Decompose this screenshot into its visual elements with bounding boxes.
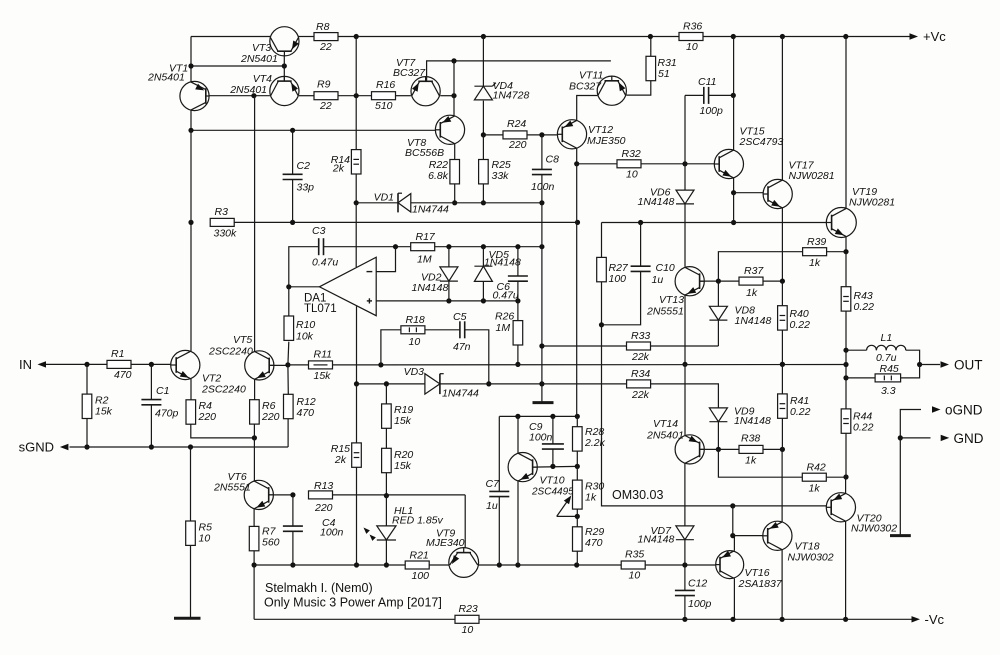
svg-text:2k: 2k [334, 454, 347, 466]
junction R37/VT17e/R40 [780, 279, 785, 284]
svg-text:R21: R21 [410, 550, 429, 562]
wire sGND rail [70, 446, 289, 448]
svg-text:470: 470 [114, 369, 132, 381]
junction long rail end x577 [575, 220, 580, 225]
wire DA1 V- supply [356, 306, 358, 384]
resistor R18 [401, 326, 425, 334]
wire R22 to VD1 wire [454, 184, 456, 203]
junction C8/VD1 wire [539, 200, 544, 205]
svg-text:10k: 10k [296, 331, 314, 343]
junction L1-R45 right/OUT [917, 362, 922, 367]
wire R43 top [845, 252, 847, 287]
svg-text:1M: 1M [417, 254, 432, 266]
junction VT3 base y66 [282, 63, 287, 68]
transistor VT18 [763, 521, 792, 550]
wire VT3 base down [283, 56, 285, 66]
transistor VT13 [675, 267, 704, 296]
svg-text:22k: 22k [631, 389, 650, 401]
svg-text:100n: 100n [531, 181, 555, 193]
wire x846 between dots [845, 350, 847, 378]
wire C9 top leg [552, 416, 554, 444]
wire R9 to R16 [338, 95, 372, 97]
resistor R5 [186, 521, 196, 545]
wire R37 left [718, 280, 739, 282]
wire C2 bottom [292, 180, 294, 223]
wire VT9 right onward [478, 564, 621, 566]
wire C1 top [150, 364, 152, 399]
wire VT14 collector up [684, 364, 686, 435]
wire -Vc rail left [254, 618, 455, 620]
wire OM-block vertical [602, 325, 733, 506]
svg-text:VT5: VT5 [233, 334, 252, 346]
svg-text:0.47u: 0.47u [312, 257, 338, 269]
transistor VT16 [716, 551, 744, 579]
svg-text:sGND: sGND [19, 440, 54, 455]
wire VT14 emitter down [684, 463, 686, 526]
wire DA1 output [289, 286, 320, 288]
junction VT10c/y416 [515, 414, 520, 419]
wire VT20 collector up [845, 477, 847, 493]
svg-text:R38: R38 [741, 433, 760, 445]
wire +Vc rail left segment [191, 36, 270, 38]
wire R40 bottom [781, 330, 783, 364]
resistor R39 [803, 248, 827, 256]
junction C9/y416 [550, 414, 555, 419]
resistor R8 [314, 33, 338, 41]
svg-text:1k: 1k [809, 257, 821, 269]
svg-text:10: 10 [629, 570, 641, 582]
svg-text:Stelmakh I. (Nem0): Stelmakh I. (Nem0) [265, 581, 373, 595]
junction VT7-VT8 collector column top [451, 58, 456, 63]
svg-text:2SC4793: 2SC4793 [739, 136, 784, 148]
wire C3 to R17 [324, 246, 411, 248]
wire VT6 emitter down [253, 509, 255, 527]
svg-text:R1: R1 [111, 348, 124, 360]
wire VD7 bottom [684, 540, 686, 565]
junction R9-R16/R14 column [354, 93, 359, 98]
svg-text:10: 10 [686, 41, 698, 53]
junction C11/VT15 collector [731, 93, 736, 98]
wire R35 right [645, 564, 716, 566]
wire VT6 base right [269, 494, 293, 496]
svg-text:R24: R24 [507, 118, 526, 130]
resistor R25 [479, 160, 489, 184]
wire R19 leg [385, 384, 387, 404]
wire -Vc rail right [479, 618, 912, 620]
wire VT1 base to VT4 [209, 95, 270, 97]
wire C10 top [640, 223, 642, 267]
svg-text:C2: C2 [297, 160, 311, 172]
capacitor C8 [532, 168, 552, 170]
resistor R31 [646, 56, 656, 80]
wire C2 top [292, 130, 294, 174]
wire R27 top [601, 223, 603, 258]
diode VD7 [676, 526, 694, 540]
wire inv input [376, 247, 395, 272]
transistor VT6 [244, 480, 273, 509]
transistor VT15 [714, 149, 743, 178]
svg-text:NJW0281: NJW0281 [849, 197, 895, 209]
wire R38 left [718, 448, 739, 450]
svg-text:1u: 1u [652, 274, 664, 286]
wire R24 to VT12 base [527, 134, 557, 136]
wire R14 to VD1 node [355, 174, 357, 203]
svg-text:22k: 22k [631, 351, 650, 363]
ground symbol (input) [174, 617, 201, 620]
junction VT18 base node [730, 533, 735, 538]
wire C9 bottom leg [552, 449, 554, 466]
svg-text:R26: R26 [495, 311, 514, 323]
wire R25 bottom [482, 184, 484, 203]
wire VT13 emitter down [684, 295, 686, 364]
wire R10 top [288, 287, 290, 316]
junction VT13e-VT14c/OUT rail [682, 362, 687, 367]
ground symbol (mid) [533, 401, 554, 404]
wire R18 to C5 [425, 329, 460, 331]
junction R19 top [384, 381, 389, 386]
wire VT11 right to R31 [626, 81, 650, 95]
wire VT17 collector up [781, 37, 783, 181]
resistor R7 [249, 526, 259, 550]
transistor VT14 [675, 435, 704, 464]
junction R32/C11/VD6 [682, 161, 687, 166]
node -Vc arrow [912, 616, 921, 622]
wire R10 bottom [287, 342, 290, 365]
wire VT14 base [700, 448, 719, 450]
wire C11 right [709, 94, 734, 96]
junction bias rail x733 [731, 220, 736, 225]
node OUT arrow [941, 361, 950, 367]
diode VD2 [440, 267, 458, 281]
svg-text:2N5551: 2N5551 [646, 306, 684, 318]
wire VT15 collector up [733, 37, 735, 151]
wire VT19 collector up [845, 37, 847, 209]
svg-text:470: 470 [297, 407, 315, 419]
wire C3 left leg [289, 247, 319, 287]
wire R44 bottom [845, 433, 847, 477]
wire OUT rail [381, 364, 846, 366]
resistor R23 [455, 615, 479, 623]
wire C1 bottom [150, 405, 152, 447]
wire R12 top [287, 365, 289, 394]
svg-text:R45: R45 [880, 363, 899, 375]
wire VD1 anode [356, 202, 398, 204]
wire VD4 from +Vc [482, 37, 484, 87]
wire VD3 to C5 node [440, 383, 489, 385]
wire VT18 base [733, 535, 763, 537]
svg-text:1N4148: 1N4148 [735, 315, 772, 327]
wire VT10 emitter down [517, 481, 519, 565]
transistor VT7 [411, 77, 440, 106]
wire y130 long (VT1 emitter to VT8 base) [191, 129, 435, 131]
resistor R4 [186, 400, 196, 424]
junction R20/HL1/R13 wire [384, 493, 389, 498]
junction R2/sGND [84, 444, 89, 449]
wire R45 left [846, 377, 875, 379]
svg-text:VD3: VD3 [404, 366, 425, 378]
wire +Vc rail [338, 36, 911, 38]
wire R26 bottom [517, 345, 519, 364]
wire R5 column [190, 447, 192, 521]
wire VT5 base right [269, 364, 288, 366]
svg-text:0.22: 0.22 [790, 319, 811, 331]
svg-text:R9: R9 [317, 79, 331, 91]
LED HL1 arrows [364, 528, 370, 534]
svg-text:C10: C10 [656, 262, 675, 274]
capacitor C6 [508, 275, 528, 277]
svg-text:220: 220 [508, 139, 527, 151]
svg-text:2N5401: 2N5401 [229, 84, 267, 96]
capacitor C4 [283, 525, 303, 527]
junction R28-R30 [575, 464, 580, 469]
wire VT10 base right [533, 465, 578, 468]
junction R30 wiper tap [575, 514, 580, 519]
resistor R33 [627, 342, 651, 350]
wire R34 feed [542, 383, 627, 385]
wire R11 left [288, 364, 309, 366]
wire R19-R20 [385, 428, 387, 448]
wire VT5 emitter down [254, 379, 256, 399]
transistor VT1 [180, 81, 209, 110]
wire L1 left [846, 349, 867, 351]
wire x577 long column [576, 164, 578, 417]
junction R40/OUT rail [780, 362, 785, 367]
svg-text:1u: 1u [486, 500, 498, 512]
transistor VT5 [245, 351, 274, 380]
LED HL1 [377, 526, 396, 540]
wire VD8 to R33 [717, 321, 719, 347]
junction R39/VT19e [843, 249, 848, 254]
junction HL1/bottom rail [384, 562, 389, 567]
wire R32 to C11/VD6 node [641, 163, 685, 165]
wire VT2 emitter down [190, 379, 192, 400]
svg-text:R8: R8 [316, 21, 330, 33]
junction R24/C8/VT12 [539, 132, 544, 137]
wire VT7 right to column [440, 95, 454, 97]
junction VD5 top [481, 244, 486, 249]
svg-text:220: 220 [314, 502, 333, 514]
resistor R32 [617, 160, 641, 168]
capacitor C10 [631, 265, 651, 267]
junction OUT rail x782 [780, 362, 785, 367]
svg-text:2N5401: 2N5401 [646, 430, 684, 442]
svg-text:1N4148: 1N4148 [484, 256, 521, 268]
wire y66 VT1-VT3 base [191, 65, 284, 67]
svg-text:220: 220 [198, 411, 217, 423]
wire C8 top [541, 135, 543, 170]
wire R13 right [333, 494, 466, 496]
wire R14 column [355, 96, 357, 150]
resistor R21 [405, 561, 429, 569]
resistor R10 [284, 316, 294, 340]
wire R5 to ground [190, 545, 192, 617]
resistor R29 [573, 527, 583, 551]
svg-text:OM30.03: OM30.03 [612, 488, 663, 502]
resistor R19 [382, 404, 392, 428]
svg-text:2N5401: 2N5401 [240, 53, 278, 65]
junction R22/VD1 wire [452, 200, 457, 205]
svg-text:IN: IN [19, 357, 32, 372]
junction R27/C10 bottom [599, 322, 604, 327]
wire R2 bottom [86, 419, 88, 448]
junction R18 leg/rail [378, 362, 383, 367]
node IN arrow [38, 361, 47, 367]
svg-text:R16: R16 [376, 79, 395, 91]
junction V-/R15/VD3wire [354, 381, 359, 386]
wire C4 bottom [292, 531, 294, 565]
diode VD9 [709, 408, 727, 422]
svg-text:2N5551: 2N5551 [213, 482, 251, 494]
junction VT1-VT4 base / C2 column [251, 93, 256, 98]
wire x542 column lower [541, 247, 543, 402]
junction VD1 node [354, 200, 359, 205]
op-amp DA1 [319, 257, 376, 316]
inductor L1 [867, 345, 877, 350]
svg-text:0.22: 0.22 [854, 301, 875, 313]
svg-text:BC327: BC327 [569, 81, 602, 93]
svg-text:1N4148: 1N4148 [638, 196, 675, 208]
svg-text:C12: C12 [688, 578, 707, 590]
svg-text:0.22: 0.22 [853, 422, 874, 434]
wire C6 top leg [517, 247, 519, 276]
wire bottom rail left part [254, 564, 405, 566]
svg-text:100: 100 [412, 570, 430, 582]
wire R45 right [901, 365, 920, 378]
svg-text:2SC4495: 2SC4495 [531, 487, 574, 498]
wire R16 to VT7 [396, 95, 411, 97]
junction x542/R17 wire [539, 244, 544, 249]
resistor R20 [382, 448, 392, 472]
wire VT3 collector to R8 [299, 36, 315, 38]
wire VT19 emitter down [845, 236, 847, 251]
resistor R30 [573, 480, 583, 509]
svg-text:1k: 1k [809, 483, 821, 495]
svg-text:330k: 330k [214, 228, 238, 240]
node oGND arrow [932, 406, 941, 412]
wire VT16 collector up [733, 536, 735, 551]
svg-text:100p: 100p [688, 598, 712, 610]
capacitor C12 [675, 589, 695, 591]
capacitor C1 [141, 399, 161, 401]
svg-text:C3: C3 [312, 225, 326, 237]
junction C6 top [515, 244, 520, 249]
svg-text:1N4744: 1N4744 [442, 388, 479, 400]
svg-text:1N4728: 1N4728 [493, 89, 530, 101]
resistor R28 [573, 427, 583, 451]
wire VD6 to VT13 collector [684, 204, 686, 267]
svg-text:GND: GND [954, 431, 984, 446]
wire R7 bottom [253, 551, 255, 565]
svg-text:BC556B: BC556B [405, 147, 444, 159]
svg-text:470: 470 [585, 537, 603, 549]
capacitor C5 [459, 321, 461, 338]
wire R43 bottom [845, 311, 847, 350]
transistor VT12 [557, 120, 586, 149]
junction x542/VD3 wire [539, 381, 544, 386]
junction C3/R17/inv input [393, 244, 398, 249]
svg-text:560: 560 [262, 537, 280, 549]
wire GND lead [900, 437, 930, 439]
transistor VT4 [270, 76, 299, 105]
wire R29 bottom [576, 551, 578, 565]
zener VD4 [474, 86, 492, 100]
resistor R22 [450, 160, 460, 184]
wire VT12 emitter down [576, 148, 578, 164]
wire C7 top leg [498, 416, 500, 491]
junction L1 left [843, 348, 848, 353]
svg-text:NJW0302: NJW0302 [788, 552, 834, 564]
junction y130 x191 [188, 128, 193, 133]
svg-text:3.3: 3.3 [881, 385, 896, 397]
wire HL1 top [385, 496, 387, 526]
svg-text:VD1: VD1 [374, 192, 394, 204]
junction +Vc/VD4 [481, 34, 486, 39]
resistor R45 [875, 374, 901, 382]
trimmer R30 wiper [557, 515, 578, 517]
wire C7 bottom leg [498, 497, 500, 565]
wire VT5 collector up [254, 96, 256, 352]
wire R25 top [482, 135, 484, 160]
svg-text:VT14: VT14 [653, 418, 678, 430]
svg-text:R33: R33 [631, 330, 650, 342]
resistor R26 [513, 321, 523, 345]
capacitor C3 [318, 238, 320, 255]
transistor VT8 [435, 115, 464, 144]
svg-text:1k: 1k [746, 287, 758, 299]
junction GND tap [898, 435, 903, 440]
svg-text:1k: 1k [585, 492, 597, 504]
wire VD2 top leg [448, 247, 450, 267]
wire VD8 top [717, 281, 719, 306]
svg-text:10: 10 [462, 624, 474, 636]
svg-text:C7: C7 [486, 478, 501, 490]
wire R34 right to VD9 [651, 384, 719, 408]
transistor VT3 [270, 27, 299, 56]
svg-text:R11: R11 [314, 349, 332, 361]
junction R3 left [188, 220, 193, 225]
junction VT6b/C4/R13 [290, 492, 295, 497]
wire R3 long rail y222 [234, 221, 577, 223]
resistor R38 [739, 445, 763, 453]
svg-text:R17: R17 [416, 231, 436, 243]
wire R14 column top [355, 37, 357, 96]
transistor VT17 [763, 179, 792, 208]
wire VD3 wire left [357, 383, 425, 385]
wire VT1 collector up [190, 37, 192, 83]
resistor R9 [314, 92, 338, 100]
junction VT14b/R38/VD9 [716, 447, 721, 452]
svg-text:22: 22 [319, 41, 332, 53]
wire R11 right to rail [333, 364, 381, 366]
svg-text:R36: R36 [683, 21, 702, 33]
wire R4 bottom corner [191, 424, 255, 438]
wire R44 top [845, 378, 847, 409]
junction R42/R44/VT20c [843, 474, 848, 479]
wire R28 top [576, 416, 578, 426]
wire R21 to VT9 [429, 564, 449, 566]
svg-text:2SC2240: 2SC2240 [201, 384, 246, 396]
junction C2 bottom [290, 220, 295, 225]
svg-text:15k: 15k [95, 406, 113, 418]
svg-text:470p: 470p [155, 408, 179, 420]
svg-text:33k: 33k [492, 170, 510, 182]
svg-text:R32: R32 [622, 148, 641, 160]
wire VT17 emitter down [781, 208, 783, 281]
capacitor C9 [542, 443, 564, 445]
wire R41 bottom [781, 418, 783, 449]
wire VT15 emitter down [733, 178, 735, 193]
transistor VT10 [508, 453, 537, 482]
